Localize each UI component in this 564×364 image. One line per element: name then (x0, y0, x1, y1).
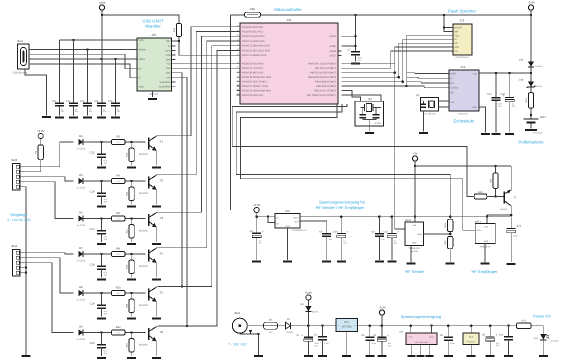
svg-text:BC846C: BC846C (139, 192, 148, 195)
wire BU4 pin4 to ground rail (21, 267, 26, 269)
capacitor C4 electrolytic (381, 326, 383, 338)
node junction (354, 45, 357, 48)
capacitor C5 (447, 326, 449, 338)
node junction (507, 324, 510, 327)
resistor R19 (131, 333, 133, 339)
svg-text:GND: GND (412, 242, 417, 245)
ground (97, 278, 106, 280)
svg-text:IC3: IC3 (460, 19, 465, 23)
wire BU3 pin5 to common ground (21, 187, 26, 355)
wire (21, 160, 40, 172)
svg-text:47k: 47k (117, 332, 120, 335)
wire (439, 100, 450, 102)
wire (410, 326, 412, 333)
wire collector (156, 286, 158, 289)
svg-text:USB UART: USB UART (142, 18, 164, 23)
wire BU4 pin3 to row6 (21, 263, 73, 333)
wire IC1 GND (346, 332, 348, 355)
capacitor C3 (369, 326, 371, 338)
svg-text:PB1 OC1A PCINT1: PB1 OC1A PCINT1 (315, 67, 337, 70)
svg-text:BC856C: BC856C (500, 208, 508, 211)
svg-text:DATA: DATA (477, 229, 482, 232)
wire D+ net (33, 54, 137, 68)
wire IC2 port to transistor collector (158, 46, 240, 287)
capacitor C9 (322, 233, 331, 235)
svg-text:SCK: SCK (454, 46, 459, 49)
wire base line (83, 332, 111, 334)
svg-text:Echtzeituhr: Echtzeituhr (454, 119, 476, 124)
ground (408, 355, 416, 357)
ground (504, 355, 513, 357)
svg-text:Q1: Q1 (368, 97, 372, 101)
resistor R18 (131, 293, 133, 299)
svg-text:LP2985AIM-3.3: LP2985AIM-3.3 (292, 229, 308, 232)
wire IC2 port to transistor collector (158, 32, 240, 175)
svg-text:BAT1: BAT1 (540, 116, 547, 119)
svg-text:C13: C13 (517, 224, 522, 227)
wire (101, 10, 103, 15)
wire REGIN net (33, 49, 137, 51)
capacitor C23 (83, 102, 92, 104)
svg-text:3 - 10V AC / DC: 3 - 10V AC / DC (7, 218, 31, 222)
wire T7 emitter down (510, 206, 512, 217)
resistor R18 (176, 24, 181, 37)
ground (481, 133, 490, 135)
svg-text:+3.3V: +3.3V (37, 129, 45, 133)
node junction (100, 180, 103, 183)
transistor T5 BC846C (148, 289, 150, 301)
svg-text:PCINT13 SCL ADC5 PC5: PCINT13 SCL ADC5 PC5 (242, 49, 270, 52)
svg-text:D4: D4 (79, 135, 83, 138)
svg-text:PCINT19 OC2B INT1 PD3: PCINT19 OC2B INT1 PD3 (242, 76, 271, 79)
node +3.3V power symbol pullup (38, 133, 43, 138)
capacitor C27 (422, 101, 424, 104)
svg-text:D18: D18 (519, 79, 524, 82)
ground (55, 116, 64, 118)
svg-text:1N4148: 1N4148 (535, 65, 543, 68)
wire collector (156, 247, 158, 250)
svg-text:C23: C23 (80, 100, 85, 103)
resistor R19 (528, 93, 533, 108)
ground (318, 355, 327, 357)
wire (231, 14, 245, 16)
svg-text:47k: 47k (117, 141, 120, 144)
svg-text:C10: C10 (333, 230, 338, 233)
svg-text:PCINT20 XCK T0 PD4: PCINT20 XCK T0 PD4 (242, 81, 267, 84)
svg-text:Spannungsversorgung: Spannungsversorgung (401, 314, 441, 319)
svg-text:IC4: IC4 (461, 65, 466, 69)
wire IC2 to HF receiver data loop (240, 104, 475, 230)
node junction (72, 39, 75, 42)
svg-text:T2: T2 (160, 179, 164, 183)
svg-text:+: + (397, 230, 399, 234)
ground (152, 278, 161, 280)
svg-text:LL4148: LL4148 (77, 187, 86, 190)
node +3.3V power symbol (528, 5, 533, 10)
svg-text:vin: vin (337, 324, 339, 327)
svg-text:PB7 OSC2 XTAL2 PCINT7: PB7 OSC2 XTAL2 PCINT7 (307, 94, 337, 97)
svg-text:+3.3V: +3.3V (253, 203, 261, 207)
svg-text:100n: 100n (324, 342, 328, 345)
svg-text:R4: R4 (116, 174, 120, 177)
ground (377, 355, 386, 357)
ground (97, 317, 106, 319)
svg-text:LED grün: LED grün (550, 339, 560, 342)
capacitor C2 (322, 326, 324, 337)
node junction (114, 58, 117, 61)
ground (525, 129, 537, 131)
svg-text:AREF: AREF (329, 45, 336, 48)
svg-text:PCINT17 TXD PD1: PCINT17 TXD PD1 (242, 67, 264, 70)
filter FL3 (463, 333, 479, 344)
ground (42, 116, 51, 118)
svg-text:Eingänge: Eingänge (11, 212, 29, 217)
svg-text:29: 29 (237, 53, 239, 56)
svg-text:RX868-2V: RX868-2V (480, 245, 491, 248)
ground (22, 355, 31, 357)
svg-text:DCD: DCD (166, 49, 171, 52)
wire BU4 pin2 to row5 (21, 258, 73, 293)
wire +3.3V rail top (261, 14, 532, 16)
wire (470, 344, 472, 354)
wire (431, 326, 433, 333)
svg-text:C12: C12 (384, 230, 389, 233)
node junction (381, 324, 384, 327)
svg-text:CS: CS (454, 50, 458, 53)
svg-text:T6: T6 (160, 330, 164, 334)
svg-text:T3: T3 (160, 216, 164, 220)
ground (83, 116, 92, 118)
wire (247, 325, 263, 327)
wire (381, 315, 383, 326)
capacitor C28 (509, 73, 511, 97)
svg-text:HF Empfänger: HF Empfänger (471, 269, 498, 274)
wire MFS1 supply riser (414, 166, 416, 222)
ground (365, 132, 374, 134)
svg-text:HF Sender / HF Empfänger: HF Sender / HF Empfänger (316, 205, 365, 210)
capacitor C21 (55, 102, 64, 104)
svg-text:10n: 10n (381, 238, 384, 241)
wire pin stub (338, 50, 342, 52)
svg-text:GND: GND (139, 86, 144, 89)
wire IC2 port to transistor collector (158, 36, 240, 212)
node junction (449, 215, 452, 218)
svg-text:R8: R8 (116, 247, 120, 250)
wire (278, 325, 286, 327)
node junction (257, 333, 260, 336)
ground (127, 317, 136, 319)
node junction (405, 85, 408, 88)
svg-text:PCINT10 ADC2 PC2: PCINT10 ADC2 PC2 (242, 35, 265, 38)
ground (507, 263, 516, 265)
svg-text:T7: T7 (513, 196, 517, 200)
ground (481, 263, 490, 265)
svg-text:BU4: BU4 (12, 244, 18, 248)
svg-text:RxD: RxD (166, 67, 171, 70)
wire IC2 to IC3 flash bus (342, 35, 454, 86)
wire (73, 40, 75, 103)
svg-text:IC2: IC2 (399, 330, 403, 333)
capacitor C24 (97, 102, 106, 104)
wire bus branch to IC4 (407, 82, 449, 83)
wire emitter (155, 302, 157, 317)
node junction (470, 324, 473, 327)
wire C21 riser (59, 40, 61, 103)
node junction (409, 324, 412, 327)
svg-text:LL4148: LL4148 (77, 338, 86, 341)
wire BU3 pin4 to row3 (21, 182, 73, 219)
node junction (369, 324, 372, 327)
svg-text:PB0 ICP1 CLKO PCINT0: PB0 ICP1 CLKO PCINT0 (309, 63, 337, 66)
wire pin stub (237, 72, 241, 74)
svg-text:+3.3V: +3.3V (527, 0, 535, 4)
wire IC2 PB0 to MFS1 data (342, 64, 406, 229)
wire emitter (155, 151, 157, 166)
ground (97, 116, 106, 118)
wire IC4 GND (479, 107, 486, 132)
svg-text:OSC: OSC (450, 101, 455, 104)
node junction (181, 285, 184, 288)
ground (127, 278, 136, 280)
wire rail riser to bottom (230, 15, 232, 210)
wire (40, 139, 42, 145)
transistor T2 BC846C (148, 177, 150, 189)
ground (97, 205, 106, 207)
resistor R17 (517, 323, 532, 329)
wire pin stub (237, 76, 241, 78)
svg-text:100n: 100n (372, 342, 376, 345)
svg-text:PCINT14 RESET PC6: PCINT14 RESET PC6 (242, 54, 267, 57)
wire IC2 to HF T7 control loop (232, 104, 474, 196)
wire BU3 pin1 to row1 (21, 142, 73, 167)
svg-text:+: + (495, 333, 497, 337)
node junction (255, 215, 258, 218)
svg-text:VDD: VDD (472, 73, 477, 76)
wire IC2 to HF sender control loop (236, 104, 450, 217)
capacitor C6 electrolytic (489, 326, 491, 337)
svg-text:HT-7533: HT-7533 (342, 326, 352, 329)
wire pin stub (237, 94, 241, 96)
ground (69, 116, 78, 118)
svg-text:IC2: IC2 (287, 18, 292, 22)
ground (486, 355, 495, 357)
ground (351, 62, 360, 64)
svg-text:Mikrocontroller: Mikrocontroller (274, 7, 302, 12)
wire IC2 port to transistor collector (158, 50, 240, 326)
ground (152, 243, 161, 245)
ground (97, 357, 106, 359)
ground (446, 263, 455, 265)
wire (530, 10, 532, 61)
wire collector (156, 174, 158, 177)
svg-text:SI: SI (450, 77, 453, 80)
svg-text:C11: C11 (371, 230, 376, 233)
svg-text:Uusb: Uusb (99, 0, 106, 4)
ground (387, 261, 396, 263)
wire pin stub (237, 63, 241, 65)
node junction (130, 331, 133, 334)
svg-text:8 MHz: 8 MHz (375, 122, 382, 125)
node Uusb power symbol bottom (306, 295, 311, 300)
ground (152, 205, 161, 207)
svg-text:C18: C18 (90, 263, 95, 266)
node junction (354, 14, 357, 17)
svg-text:T1: T1 (160, 140, 164, 144)
ground (444, 355, 453, 357)
wire AVCC riser (355, 15, 357, 52)
svg-text:Pufferbatterie: Pufferbatterie (518, 140, 544, 145)
svg-text:C14: C14 (499, 334, 504, 337)
wire (101, 106, 103, 116)
wire AVCC (342, 35, 356, 37)
wire (256, 213, 258, 217)
wire (73, 106, 75, 116)
capacitor C22 (495, 73, 497, 98)
wire VDD net (60, 39, 138, 41)
ground (152, 166, 161, 168)
wire (115, 59, 117, 103)
svg-text:CLOCK: CLOCK (450, 87, 458, 90)
wire (420, 344, 422, 354)
capacitor C14 (508, 326, 510, 337)
svg-text:GND: GND (472, 106, 477, 109)
wire IC2 to IC3 flash bus (342, 47, 454, 73)
svg-text:SUSPEND: SUSPEND (159, 81, 170, 84)
ground (492, 133, 501, 135)
svg-text:+3.3V: +3.3V (378, 305, 386, 309)
svg-text:C25: C25 (108, 100, 113, 103)
svg-text:FB5: FB5 (250, 7, 256, 11)
svg-text:PFRA070: PFRA070 (467, 341, 477, 344)
wire emitter (155, 190, 157, 205)
svg-text:Uusb: Uusb (305, 290, 312, 294)
node junction (354, 35, 357, 38)
svg-text:GND: GND (484, 240, 489, 243)
node +3.3V power symbol bottom (379, 310, 384, 315)
node junction (394, 71, 397, 74)
node junction (186, 325, 189, 328)
wire (257, 334, 259, 355)
wire rail to IC3 RESET (444, 15, 453, 31)
wire MFS1 GND (410, 245, 412, 261)
svg-text:47k: 47k (117, 253, 120, 256)
wire (59, 106, 61, 116)
capacitor C7 AVCC decoupling (351, 51, 360, 53)
wire (470, 326, 472, 333)
ground (342, 355, 351, 357)
node junction (430, 324, 433, 327)
wire (307, 300, 309, 306)
ground (337, 261, 346, 263)
node junction (401, 80, 404, 83)
ground (304, 355, 313, 357)
transistor T6 BC846C (148, 328, 150, 340)
wire MFS1 data (423, 233, 450, 235)
wire IC5 GND (152, 91, 154, 97)
node +2V power symbol (412, 156, 417, 161)
node junction (307, 324, 310, 327)
wire collector (156, 211, 158, 214)
wire (87, 106, 89, 116)
wire IC4 VDD to D16 (479, 72, 531, 74)
svg-text:Sender: Sender (410, 250, 418, 253)
svg-text:SO: SO (450, 82, 454, 85)
node junction (510, 214, 513, 217)
ground (152, 317, 161, 319)
wire base line (83, 253, 111, 255)
svg-text:+: + (346, 230, 348, 234)
svg-text:SO: SO (454, 42, 458, 45)
svg-text:C17: C17 (90, 228, 95, 231)
svg-text:T4: T4 (160, 252, 164, 256)
ground (467, 355, 476, 357)
svg-text:D6: D6 (79, 212, 83, 215)
svg-text:BC846C: BC846C (139, 343, 148, 346)
wire (355, 55, 357, 62)
svg-text:IC5: IC5 (152, 33, 157, 37)
svg-text:IC6: IC6 (285, 209, 290, 213)
wire base line (83, 180, 111, 182)
svg-text:7 - 10V / DC: 7 - 10V / DC (228, 342, 247, 346)
svg-text:R6: R6 (116, 212, 120, 215)
capacitor C1 electrolytic (307, 326, 309, 338)
wire (307, 312, 309, 326)
wire pin stub (237, 85, 241, 87)
svg-text:Power On: Power On (533, 313, 551, 318)
svg-text:TxD: TxD (166, 63, 171, 66)
ground (322, 261, 331, 263)
wire (257, 216, 275, 218)
ground (539, 355, 548, 357)
svg-text:LL4148: LL4148 (77, 260, 86, 263)
svg-text:PB3 MOSI OC2A PCINT3: PB3 MOSI OC2A PCINT3 (308, 76, 337, 79)
node junction (449, 233, 452, 236)
wire +2V rail (415, 165, 511, 167)
svg-text:DATA: DATA (417, 233, 422, 236)
node junction (100, 58, 103, 61)
svg-text:D-: D- (139, 77, 142, 80)
node junction (267, 215, 270, 218)
svg-text:C21: C21 (52, 100, 57, 103)
svg-text:TX868-540: TX868-540 (409, 247, 421, 250)
svg-text:RS5C372: RS5C372 (458, 113, 468, 116)
node junction (25, 271, 28, 274)
wire MFE1 GND (484, 244, 486, 262)
svg-text:VBUS: VBUS (139, 58, 146, 61)
svg-text:D7: D7 (79, 247, 83, 250)
wire IC2 to IC3 flash bus (342, 43, 454, 77)
node junction (378, 215, 381, 218)
svg-text:47k: 47k (117, 292, 120, 295)
svg-text:47k: 47k (117, 218, 120, 221)
resistor R16 (131, 254, 133, 260)
wire IC2 to IC3 flash bus (342, 39, 454, 81)
svg-text:PCINT21 OC0B T1 PD5: PCINT21 OC0B T1 PD5 (242, 85, 269, 88)
svg-text:AT45DB161D: AT45DB161D (455, 56, 469, 59)
wire BU4 pin5 to ground rail (21, 272, 26, 274)
svg-text:SI: SI (454, 38, 457, 41)
svg-text:Flash Speicher: Flash Speicher (448, 8, 477, 13)
capacitor C20 (101, 333, 103, 345)
svg-text:BU1: BU1 (18, 39, 24, 43)
node junction Uusb (101, 14, 104, 17)
svg-text:PCINT22 OC0A AIN0 PD6: PCINT22 OC0A AIN0 PD6 (242, 90, 271, 93)
node junction (414, 165, 417, 168)
wire EN jog (268, 217, 275, 223)
wire D- net (33, 64, 137, 78)
svg-text:ADC6: ADC6 (329, 50, 336, 53)
svg-text:RI: RI (168, 45, 171, 48)
